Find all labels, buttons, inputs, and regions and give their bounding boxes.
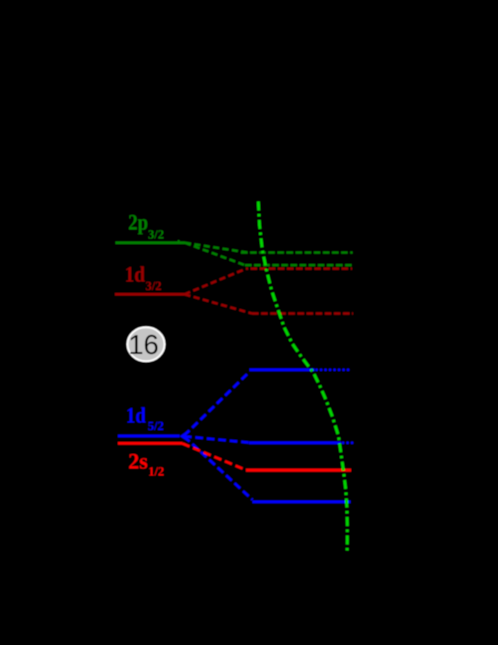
level 2s1/2 line [118,442,183,445]
red fan (2s1/2) [183,444,247,471]
circled 16 [128,327,165,361]
svg-text:1d: 1d [125,262,146,287]
blue level y443 solid [249,441,341,444]
blue level y370 solid [250,368,315,371]
level 2p3/2 line [116,242,186,245]
green dashed level upper right [241,251,353,253]
blue fan middle [184,436,249,442]
svg-text:2p: 2p [128,210,148,235]
green dash-dot curve [258,202,347,552]
level 2s1/2 label [128,448,164,478]
blue fan up (1d5/2 -> upper level) [184,372,250,436]
blue level y370 dotted tail [317,368,353,371]
level 1d5/2 line [118,435,180,438]
svg-text:1/2: 1/2 [148,464,164,478]
svg-text:5/2: 5/2 [148,419,164,433]
svg-text:1d: 1d [126,403,146,428]
level 1d3/2 label [125,262,162,294]
level 1d3/2 line [115,293,185,296]
svg-text:3/2: 3/2 [148,228,164,242]
dark red dashed level lower right [252,312,353,314]
blue fan down [184,436,253,500]
blue level y443 dotted tail [343,441,353,444]
blue level y501.5 solid [253,500,351,503]
green dashed level lower right [245,264,353,266]
blue arrowhead [180,431,188,441]
level 2p3/2 label [128,210,164,242]
svg-text:2s: 2s [128,448,148,473]
dark red fan upper (1d3/2) [185,269,247,295]
red level y469.6 solid [246,469,351,472]
dark red fan lower [185,294,253,313]
dark red dashed level upper right [246,268,352,270]
level 1d5/2 label [126,403,164,434]
svg-text:16: 16 [128,329,159,360]
svg-text:3/2: 3/2 [146,279,162,293]
2p3/2 end tick [177,240,180,242]
green fan upper (2p3/2 -> pi p3/2 upper) [185,243,248,253]
green fan lower [185,243,245,265]
